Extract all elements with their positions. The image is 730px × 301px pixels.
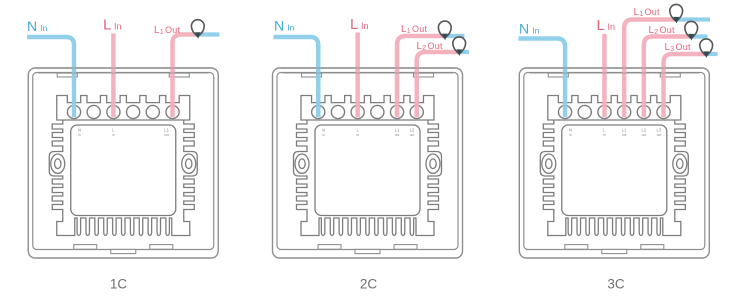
svg-text:N: N: [569, 128, 572, 133]
svg-text:3C: 3C: [607, 277, 625, 292]
wire N in (blue): [27, 37, 74, 117]
svg-text:N: N: [78, 128, 81, 133]
wire L1 out (pink): [397, 36, 444, 117]
svg-text:L1Out: L1Out: [154, 25, 180, 36]
svg-text:L2: L2: [642, 128, 647, 133]
svg-text:2C: 2C: [360, 277, 378, 292]
svg-text:in: in: [112, 133, 115, 137]
wire N in (blue): [274, 37, 319, 117]
wire L1 out (pink): [624, 20, 675, 118]
svg-text:LIn: LIn: [350, 16, 368, 33]
svg-text:L3: L3: [656, 128, 661, 133]
wire neutral stub to bulb (blue): [198, 32, 220, 36]
wire L1 out (pink): [173, 35, 199, 118]
wire L in (pink): [355, 33, 360, 118]
wire neutral stub to bulb2 (blue): [690, 34, 708, 38]
wire neutral stub to bulb2 (blue): [459, 50, 470, 54]
svg-text:in: in: [569, 133, 572, 137]
bulb L2: [453, 37, 466, 56]
switch plate 3C: [519, 68, 709, 258]
svg-text:out: out: [395, 133, 400, 137]
wire L2 out (pink): [417, 52, 459, 117]
wire N in (blue): [519, 39, 566, 118]
svg-text:out: out: [657, 133, 662, 137]
svg-text:LIn: LIn: [103, 17, 121, 34]
wire L in (pink): [111, 34, 116, 118]
svg-text:N: N: [322, 128, 325, 133]
svg-text:L1: L1: [395, 128, 400, 133]
switch plate 1C: [28, 68, 218, 258]
svg-text:LIn: LIn: [597, 17, 615, 34]
svg-text:L2Out: L2Out: [417, 41, 443, 52]
svg-text:L3Out: L3Out: [665, 42, 691, 53]
switch plate 2C: [273, 68, 463, 258]
svg-text:in: in: [322, 133, 325, 137]
bulb L1: [438, 21, 451, 40]
wire L3 out (pink): [664, 54, 706, 117]
svg-text:out: out: [622, 133, 627, 137]
bulb L2: [685, 21, 698, 40]
svg-text:L1: L1: [622, 128, 627, 133]
bulb L1: [670, 4, 683, 23]
svg-text:L1Out: L1Out: [634, 7, 660, 18]
wire neutral stub to bulb1 (blue): [444, 34, 465, 38]
wire L in (pink): [602, 34, 607, 117]
wire neutral run to bulb1 (blue): [675, 17, 710, 21]
svg-text:NIn: NIn: [27, 18, 48, 34]
svg-text:1C: 1C: [110, 277, 128, 292]
svg-text:out: out: [410, 133, 415, 137]
svg-text:out: out: [164, 133, 169, 137]
bulb L3: [700, 39, 713, 58]
svg-text:NIn: NIn: [274, 18, 295, 34]
bulb L1: [191, 20, 204, 39]
svg-text:L2: L2: [410, 128, 415, 133]
wire L2 out (pink): [644, 37, 690, 118]
svg-text:in: in: [78, 133, 81, 137]
wire neutral stub to bulb3 (blue): [706, 52, 718, 56]
svg-text:L1: L1: [164, 128, 169, 133]
svg-text:out: out: [642, 133, 647, 137]
svg-text:in: in: [603, 133, 606, 137]
plate top edge lines over wires: [36, 68, 702, 73]
svg-text:in: in: [356, 133, 359, 137]
svg-text:NIn: NIn: [519, 21, 540, 37]
svg-text:L2Out: L2Out: [649, 25, 675, 36]
svg-text:L1Out: L1Out: [401, 24, 427, 35]
